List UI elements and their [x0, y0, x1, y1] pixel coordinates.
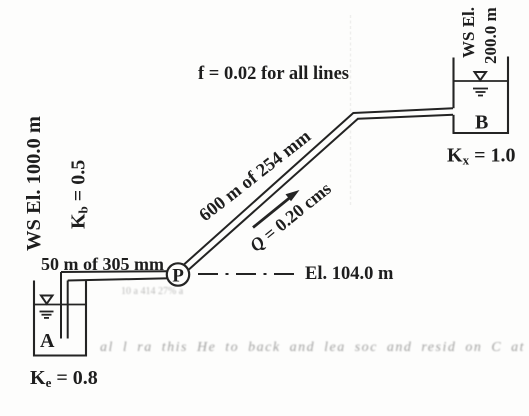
- svg-text:al l ra this He to back and le: al l ra this He to back and lea soc and …: [100, 340, 529, 355]
- svg-text:Kx = 1.0: Kx = 1.0: [447, 145, 515, 168]
- label WS El. (rotated, above tank B): [459, 7, 478, 58]
- svg-text:WS El. 100.0 m: WS El. 100.0 m: [23, 116, 45, 251]
- flow arrow: [253, 190, 300, 228]
- tank B left wall (with pipe opening): [452, 58, 454, 134]
- svg-text:Kb = 0.5: Kb = 0.5: [68, 160, 91, 229]
- elevation dash-dot line: [198, 273, 294, 275]
- svg-text:El. 104.0 m: El. 104.0 m: [305, 264, 394, 284]
- tank A walls: [34, 281, 86, 356]
- label WS El. 100.0 m (rotated, left): [23, 116, 45, 251]
- svg-text:Ke = 0.8: Ke = 0.8: [30, 367, 98, 390]
- svg-text:P: P: [172, 266, 184, 287]
- tank B water line: [454, 80, 508, 82]
- tank B bottom and right wall: [453, 57, 509, 134]
- suction pipe (vertical, into tank A): [61, 272, 68, 339]
- faint smudge under dash-dot line: [121, 286, 184, 297]
- label 200.0 m (rotated, above tank B): [481, 7, 500, 64]
- pipe bend to tank B: [353, 108, 453, 119]
- svg-text:10 a 414 27% a: 10 a 414 27% a: [121, 286, 184, 297]
- water surface symbol B (triangle): [475, 72, 487, 80]
- svg-text:200.0 m: 200.0 m: [481, 7, 500, 64]
- label B: [475, 112, 488, 134]
- pipe pump to bend (600 m of 254 mm, sloped): [176, 113, 359, 278]
- svg-text:B: B: [475, 112, 488, 134]
- svg-text:Q = 0.20 cms: Q = 0.20 cms: [246, 178, 335, 255]
- label 600 m of 254 mm (rotated along pipe): [196, 126, 316, 226]
- label 50 m of 305 mm: [41, 254, 164, 274]
- faint smudge row bottom: [100, 340, 529, 355]
- scan crease artifact: [350, 15, 352, 205]
- label Q = 0.20 cms (rotated along arrow): [246, 178, 335, 255]
- label f = 0.02 for all lines: [198, 64, 349, 84]
- label A: [40, 330, 55, 352]
- svg-text:A: A: [40, 330, 55, 352]
- water surface symbol B (hatch lines): [473, 89, 488, 96]
- label Ke = 0.8: [30, 367, 98, 390]
- label Kb = 0.5 (rotated): [68, 160, 91, 229]
- tank A water line: [34, 304, 86, 306]
- svg-text:WS El.: WS El.: [459, 7, 478, 58]
- label Kx = 1.0: [447, 145, 515, 168]
- label El. 104.0 m: [305, 264, 394, 284]
- pipe A to pump (horizontal 50 m of 305 mm): [61, 271, 170, 280]
- svg-text:f = 0.02 for all lines: f = 0.02 for all lines: [198, 64, 349, 84]
- water surface symbol A (triangle): [41, 296, 53, 304]
- water surface symbol A (hatch lines): [40, 312, 54, 318]
- pump P: [167, 263, 189, 286]
